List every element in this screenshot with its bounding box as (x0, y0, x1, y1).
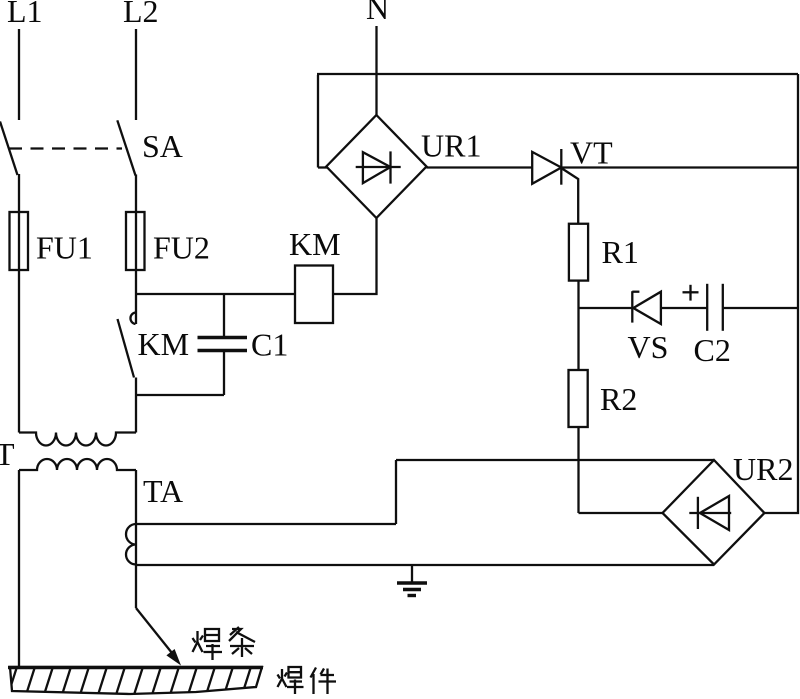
switch SA linkage (dashed) (9, 147, 122, 149)
electrode lead (136, 608, 172, 653)
wire bottom bus to UR2 (136, 564, 714, 566)
resistor R1 (569, 224, 588, 281)
electrode arrowhead (166, 649, 181, 666)
resistor R2 (569, 370, 588, 427)
switch SA blade pole 1 (0, 122, 18, 176)
UR2 internal diode (689, 512, 731, 514)
svg-text:R2: R2 (600, 381, 637, 417)
svg-text:FU2: FU2 (153, 230, 210, 266)
wire contact to transformer (135, 378, 137, 433)
capacitor C1 bottom wire (223, 352, 225, 395)
svg-text:T: T (0, 436, 15, 472)
wire right bus (764, 74, 798, 513)
wire VS branch (579, 307, 633, 309)
fuse FU2 (126, 212, 145, 270)
svg-text:N: N (366, 0, 389, 26)
wire C2 to right bus (722, 307, 798, 309)
capacitor C1 (198, 336, 248, 339)
rectifier bridge UR2 (663, 460, 765, 565)
wire KM coil to UR1 (333, 218, 377, 294)
svg-text:UR1: UR1 (421, 128, 481, 164)
plus sign (683, 291, 699, 293)
UR1 internal diode (356, 166, 401, 168)
svg-text:KM: KM (289, 226, 341, 262)
svg-text:VS: VS (628, 329, 669, 365)
wire L1 top (18, 29, 20, 120)
wire junction to KM coil (136, 293, 295, 295)
wire to UR2 left (579, 512, 664, 514)
svg-text:C2: C2 (694, 332, 731, 368)
svg-text:FU1: FU1 (36, 230, 93, 266)
switch SA blade pole 2 (117, 120, 135, 175)
wire R1 to node (577, 281, 579, 370)
svg-text:UR2: UR2 (733, 451, 793, 487)
svg-text:VT: VT (570, 135, 613, 171)
wire L1 to transformer (18, 174, 20, 433)
label 焊件 (workpiece) (278, 667, 337, 694)
VT gate (562, 169, 578, 225)
svg-text:SA: SA (142, 128, 183, 164)
wire N (375, 26, 377, 116)
thyristor VT (532, 152, 561, 184)
capacitor C1 top wire (223, 294, 225, 337)
svg-text:L2: L2 (123, 0, 159, 29)
ground (411, 565, 413, 583)
svg-text:TA: TA (143, 473, 183, 509)
wire riser to UR2 top (395, 460, 397, 524)
contactor coil KM (295, 266, 333, 324)
diode VS (zener) (631, 291, 633, 322)
wire TA upper lead (136, 523, 396, 525)
wire R2 down (577, 427, 579, 513)
contact KM blade (118, 319, 135, 378)
wire secondary left down (18, 470, 20, 668)
wire top bus (317, 75, 319, 168)
wire L2 top (135, 29, 137, 120)
stub UR1 left (318, 166, 327, 168)
wire VT cathode to right (561, 166, 798, 168)
rectifier bridge UR1 (326, 115, 426, 218)
wire L2 to contact (135, 175, 137, 325)
svg-text:KM: KM (138, 326, 190, 362)
wire UR2 top lead (396, 459, 714, 461)
wire UR1 right to VT (427, 166, 533, 168)
capacitor C2 (706, 284, 708, 331)
wire C1 bottom (136, 394, 224, 396)
label 焊条 (electrode) (193, 627, 256, 660)
transformer T secondary (19, 459, 136, 470)
svg-text:L1: L1 (7, 0, 43, 29)
svg-text:C1: C1 (251, 327, 288, 363)
wire secondary right down (135, 470, 137, 608)
current transformer TA coil (126, 524, 136, 565)
fuse FU1 (10, 212, 29, 270)
svg-text:R1: R1 (602, 234, 639, 270)
transformer T primary (19, 433, 136, 446)
contact KM hook (130, 313, 135, 325)
